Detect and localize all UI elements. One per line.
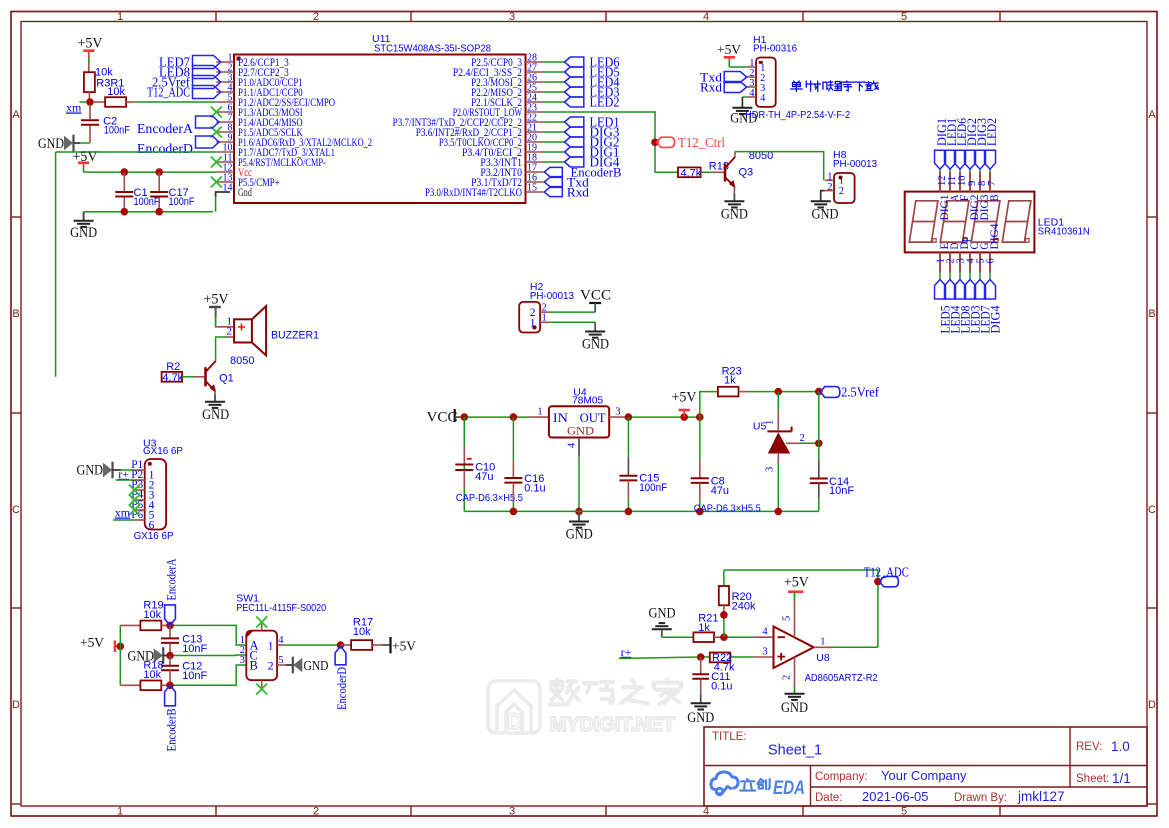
wire ground rail under C1 C17 bbox=[84, 211, 213, 213]
svg-text:R2: R2 bbox=[166, 361, 180, 373]
IC U11 body bbox=[234, 55, 526, 204]
IC U11 right pin 19 bbox=[526, 151, 544, 153]
svg-text:GND: GND bbox=[38, 136, 64, 152]
svg-text:100nF: 100nF bbox=[104, 125, 130, 137]
svg-text:4.7k: 4.7k bbox=[681, 168, 702, 180]
IC U11 no-connect X pins 6 8 11 13 bbox=[211, 107, 222, 118]
resistor R2 bbox=[162, 372, 183, 382]
svg-text:100nF: 100nF bbox=[134, 196, 160, 208]
wire +5V to IC pin12 Vcc bbox=[84, 171, 217, 173]
svg-text:GND: GND bbox=[304, 659, 329, 674]
display top flag DIG2 bbox=[965, 150, 976, 169]
IC U11 left pin 12 bbox=[216, 171, 234, 173]
svg-text:10k: 10k bbox=[107, 86, 125, 98]
junction 2.5Vref bbox=[815, 388, 823, 396]
svg-text:+5V: +5V bbox=[672, 390, 697, 406]
junction U4 gnd bottom bbox=[575, 508, 583, 516]
svg-text:EDA: EDA bbox=[773, 778, 805, 799]
svg-text:47u: 47u bbox=[711, 485, 729, 497]
wire pin to flag LED5 bbox=[544, 71, 565, 73]
op-amp pin2 to ground bbox=[794, 657, 796, 686]
connector U3 pin 6 bbox=[134, 519, 144, 521]
svg-text:6: 6 bbox=[986, 258, 997, 263]
display top pin 8 bbox=[979, 172, 981, 192]
ground arrow top left bbox=[65, 137, 73, 149]
connector H8 pin 2 bbox=[825, 190, 834, 192]
resistor R21 bbox=[693, 632, 714, 642]
svg-text:PH-00013: PH-00013 bbox=[833, 158, 877, 170]
IC U11 right pin 27 bbox=[526, 71, 544, 73]
wire GND to U3 P1 bbox=[112, 469, 121, 471]
junction C15 bottom bbox=[625, 508, 633, 516]
svg-text:U8: U8 bbox=[816, 652, 830, 664]
capacitor C2 bbox=[89, 105, 91, 120]
svg-text:3: 3 bbox=[765, 467, 776, 472]
svg-text:2: 2 bbox=[313, 806, 319, 818]
svg-text:GND: GND bbox=[721, 207, 748, 223]
svg-text:Rxd: Rxd bbox=[567, 184, 590, 199]
svg-text:EncoderD: EncoderD bbox=[137, 141, 193, 156]
svg-text:+5V: +5V bbox=[80, 636, 104, 651]
frame row ticks bbox=[11, 216, 21, 218]
IC U11 right pin 23 bbox=[526, 111, 544, 113]
connector H2 pin 2 bbox=[540, 311, 550, 313]
display digit 2 bbox=[940, 201, 969, 242]
switch SW1 top no-connect bbox=[261, 624, 263, 631]
ground arrow at U3 P1 bbox=[104, 464, 112, 476]
svg-text:Gnd: Gnd bbox=[238, 187, 252, 199]
wire gnd to SW1 pin C bbox=[163, 655, 170, 657]
op-amp U8 triangle bbox=[774, 627, 814, 669]
net flag T12_ADC bbox=[193, 86, 221, 99]
svg-text:C: C bbox=[12, 504, 20, 516]
wire Q3 collector to H8 pin1 bbox=[734, 152, 736, 157]
wire xm stub bbox=[79, 101, 86, 103]
wire gnd to R21 bbox=[662, 636, 694, 638]
svg-text:PEC11L-4115F-S0020: PEC11L-4115F-S0020 bbox=[236, 602, 326, 614]
wire H1 pin4 to ground bbox=[742, 96, 746, 98]
svg-text:C: C bbox=[1148, 504, 1156, 516]
resistor R22 bbox=[710, 653, 731, 663]
svg-text:2: 2 bbox=[227, 326, 233, 338]
junction C16 top bbox=[510, 413, 518, 421]
IC U11 right pin 18 bbox=[526, 161, 544, 163]
svg-text:GND: GND bbox=[70, 225, 97, 241]
display top pin 10 bbox=[959, 172, 961, 192]
svg-text:2021-06-05: 2021-06-05 bbox=[862, 789, 929, 804]
net port T12_Ctrl bbox=[657, 137, 675, 147]
svg-text:GX16 6P: GX16 6P bbox=[143, 445, 183, 457]
display top flag LED6 bbox=[955, 150, 966, 169]
ground at H1 bbox=[732, 107, 752, 109]
svg-text:HDR-TH_4P-P2.54-V-F-2: HDR-TH_4P-P2.54-V-F-2 bbox=[745, 110, 850, 121]
svg-text:3: 3 bbox=[615, 407, 620, 418]
junction EncoderD at R17 bbox=[337, 641, 345, 649]
svg-text:GND: GND bbox=[202, 407, 229, 423]
connector H1 pin 2 bbox=[747, 76, 756, 78]
shunt reference U5 bbox=[777, 392, 779, 412]
junction EncoderB bbox=[166, 682, 174, 690]
svg-text:D: D bbox=[12, 699, 20, 711]
wire pin to flag LED1 bbox=[544, 121, 565, 123]
wire pin to flag DIG2 bbox=[544, 141, 565, 143]
display bottom flag LED7 bbox=[975, 280, 986, 300]
svg-text:1k: 1k bbox=[698, 622, 710, 634]
net flag Rxd at H1 bbox=[724, 82, 747, 93]
svg-text:B: B bbox=[1148, 308, 1155, 320]
connector H1 body bbox=[756, 58, 776, 107]
svg-text:1: 1 bbox=[268, 639, 274, 653]
IC U11 left pin 4 bbox=[216, 91, 234, 93]
svg-text:4: 4 bbox=[762, 627, 768, 638]
net port 2.5Vref bbox=[820, 387, 840, 398]
svg-text:MYDIGIT.NET: MYDIGIT.NET bbox=[550, 714, 675, 736]
wire xm to U3 P6 bbox=[113, 519, 134, 521]
svg-text:3: 3 bbox=[509, 806, 515, 818]
svg-text:A: A bbox=[12, 109, 20, 121]
wire R19 to SW1 pin A bbox=[170, 625, 246, 645]
wire pin to flag LED3 bbox=[544, 91, 565, 93]
wire SW1 pin4 to R17 bbox=[285, 644, 340, 646]
op-amp output wire bbox=[814, 646, 833, 648]
svg-text:+5V: +5V bbox=[204, 292, 229, 308]
wire IC pin23 to T12_Ctrl and R13 bbox=[544, 112, 679, 172]
svg-text:10nF: 10nF bbox=[182, 643, 207, 655]
IC U11 left pin 3 bbox=[216, 81, 234, 83]
capacitor C15 bbox=[627, 417, 629, 458]
wire feedback top bbox=[724, 570, 878, 647]
svg-text:VCC: VCC bbox=[580, 288, 611, 304]
IC U11 left pin 13 bbox=[216, 181, 234, 183]
svg-text:10nF: 10nF bbox=[829, 485, 854, 497]
svg-text:10k: 10k bbox=[143, 609, 161, 621]
svg-text:xm: xm bbox=[115, 506, 131, 520]
display top pin 9 bbox=[969, 172, 971, 192]
connector U3 pin 2 bbox=[134, 479, 144, 481]
net flag LED2 bbox=[565, 97, 584, 107]
net flag DIG2 bbox=[565, 137, 584, 147]
ground at C11 bbox=[691, 702, 711, 704]
wire H2 pin1 to GND bbox=[550, 321, 596, 323]
svg-text:3: 3 bbox=[240, 655, 245, 666]
capacitor C14 bbox=[818, 461, 820, 479]
connector H8 body bbox=[834, 173, 855, 203]
ground arrow mid SW1 bbox=[154, 649, 162, 661]
regulator U4 78M05 bbox=[549, 406, 609, 437]
connector H1 pin 4 bbox=[747, 96, 756, 98]
wire C2 to GND bbox=[80, 142, 90, 144]
wire R2 to Q1 base bbox=[182, 376, 193, 378]
svg-text:78M05: 78M05 bbox=[572, 395, 603, 407]
resistor R1 bbox=[94, 101, 105, 103]
wire H2 pin2 to VCC bbox=[550, 311, 596, 313]
net port EncoderA bbox=[165, 605, 176, 626]
net flag LED6 bbox=[565, 57, 584, 67]
svg-text:BUZZER1: BUZZER1 bbox=[271, 330, 319, 342]
display bottom flag LED4 bbox=[945, 280, 956, 300]
junction C1 bottom bbox=[121, 208, 129, 216]
display digit 4 bbox=[1002, 201, 1031, 242]
net flag Txd at IC bbox=[544, 177, 562, 186]
connector U3 pin 3 bbox=[134, 489, 144, 491]
svg-text:2: 2 bbox=[800, 433, 805, 444]
net flag Txd at H1 bbox=[724, 72, 747, 83]
capacitor C8 bbox=[699, 417, 701, 460]
svg-text:1: 1 bbox=[117, 11, 123, 23]
wire pin to flag DIG3 bbox=[544, 131, 565, 133]
svg-text:1: 1 bbox=[537, 407, 542, 418]
transistor Q1 8050 bbox=[204, 367, 207, 386]
svg-text:GND: GND bbox=[812, 207, 839, 223]
net flag LED8 bbox=[193, 66, 221, 79]
IC U11 right pin 24 bbox=[526, 101, 544, 103]
connector H1 pin 1 bbox=[747, 66, 756, 68]
svg-text:T12_ADC: T12_ADC bbox=[147, 84, 190, 99]
svg-text:Date:: Date: bbox=[815, 792, 843, 804]
wire IC Gnd pin elbow bbox=[216, 192, 230, 197]
U5 pin2 wire bbox=[786, 442, 800, 444]
svg-text:Your Company: Your Company bbox=[881, 768, 967, 783]
svg-text:Q1: Q1 bbox=[219, 373, 234, 385]
svg-text:2: 2 bbox=[782, 675, 793, 680]
svg-text:PH-00013: PH-00013 bbox=[530, 290, 574, 302]
capacitor C17 bbox=[158, 172, 160, 191]
ground below U4 bbox=[578, 511, 580, 521]
svg-text:T12_Ctrl: T12_Ctrl bbox=[678, 135, 725, 150]
switch SW1 pin 4 bbox=[277, 644, 285, 646]
connector U3 pin 5 bbox=[134, 509, 144, 511]
svg-text:4: 4 bbox=[278, 635, 284, 646]
resistor R20 feedback bbox=[723, 570, 725, 586]
wire H8 pin2 to ground bbox=[821, 191, 825, 201]
capacitor C16 bbox=[512, 417, 514, 460]
svg-text:0.1u: 0.1u bbox=[711, 680, 732, 692]
svg-text:PH-00316: PH-00316 bbox=[753, 43, 797, 55]
svg-text:10k: 10k bbox=[143, 669, 161, 681]
wire +5V rail up to R23 bbox=[700, 392, 718, 418]
display top pin 12 bbox=[939, 172, 941, 192]
wire R21 to op-amp pin4 bbox=[714, 636, 724, 638]
wire +5V to H1 pin1 bbox=[729, 66, 746, 68]
wire r+ to op-amp pin3 bbox=[619, 657, 701, 658]
svg-text:Q3: Q3 bbox=[739, 167, 754, 179]
svg-text:240k: 240k bbox=[732, 601, 756, 613]
svg-text:5: 5 bbox=[278, 655, 283, 666]
svg-text:r+: r+ bbox=[118, 467, 129, 481]
svg-text:VCC: VCC bbox=[427, 410, 458, 426]
svg-text:IN: IN bbox=[553, 411, 568, 425]
svg-text:LED2: LED2 bbox=[590, 94, 620, 109]
watermark text shuma zhijia bbox=[550, 680, 681, 704]
svg-text:8050: 8050 bbox=[230, 355, 254, 367]
watermark mydigit logo bbox=[488, 681, 540, 733]
svg-text:GND: GND bbox=[567, 424, 594, 438]
power +5V right of R17 bbox=[389, 637, 391, 653]
display bottom pin 1 bbox=[939, 252, 941, 272]
wire R13 to Q3 base bbox=[701, 171, 713, 173]
IC U11 right pin 26 bbox=[526, 81, 544, 83]
svg-text:1: 1 bbox=[542, 313, 547, 324]
net flag EncoderA bbox=[196, 116, 220, 128]
display top pin 11 bbox=[949, 172, 951, 192]
svg-text:7: 7 bbox=[987, 181, 998, 186]
resistor R18 bbox=[120, 684, 140, 686]
IC U11 right pin 25 bbox=[526, 91, 544, 93]
junction C17 bottom bbox=[155, 208, 163, 216]
net flag DIG4 bbox=[565, 157, 584, 167]
switch SW1 bottom no-connect bbox=[261, 680, 263, 687]
wire R18 to SW1 pin B bbox=[170, 665, 246, 685]
display top flag LED2 bbox=[985, 150, 996, 169]
svg-text:LED2: LED2 bbox=[985, 118, 999, 146]
display bottom pin 5 bbox=[979, 252, 981, 272]
svg-text:r+: r+ bbox=[621, 645, 632, 659]
wire pin to flag LED6 bbox=[544, 61, 565, 63]
junction C1 top bbox=[121, 168, 129, 176]
net flag LED7 bbox=[193, 56, 221, 69]
wire VCC rail to U4 IN bbox=[464, 416, 529, 418]
display digit 1 bbox=[909, 201, 938, 242]
svg-text:4: 4 bbox=[703, 806, 709, 818]
net flag DIG1 bbox=[565, 147, 584, 157]
junction C8 bottom bbox=[696, 508, 704, 516]
wire 2.5Vref column down to C14 bbox=[818, 392, 820, 461]
net flag Rxd at IC bbox=[544, 187, 562, 196]
wire R23 to 2.5Vref bbox=[739, 391, 748, 393]
svg-text:Rxd: Rxd bbox=[700, 79, 723, 94]
svg-text:A: A bbox=[1148, 109, 1156, 121]
wire pin to flag LED2 bbox=[544, 101, 565, 103]
connector H8 pin 1 bbox=[825, 179, 834, 181]
display bottom pin 4 bbox=[969, 252, 971, 272]
svg-text:2: 2 bbox=[313, 11, 319, 23]
net flag 2.5Vref bbox=[193, 76, 221, 89]
svg-text:B: B bbox=[12, 308, 19, 320]
junction U5 pin2 bbox=[815, 440, 823, 448]
svg-text:EncoderD: EncoderD bbox=[334, 667, 349, 710]
svg-text:2: 2 bbox=[268, 659, 274, 673]
svg-text:1/1: 1/1 bbox=[1112, 771, 1131, 786]
IC U11 left pin 2 bbox=[216, 71, 234, 73]
display bottom flag LED8 bbox=[955, 280, 966, 300]
junction C8 top bbox=[696, 413, 704, 421]
svg-text:100nF: 100nF bbox=[169, 196, 195, 208]
svg-text:1: 1 bbox=[117, 806, 123, 818]
resistor R3 bbox=[84, 72, 95, 92]
svg-text:DIG4: DIG4 bbox=[989, 223, 1001, 249]
U5 pin3 wire to ground rail bbox=[777, 453, 779, 463]
junction U5 pin3 bottom bbox=[775, 508, 783, 516]
display top flag LED1 bbox=[945, 150, 956, 169]
connector H1 pin 3 bbox=[747, 86, 756, 88]
capacitor C13 bbox=[169, 625, 171, 637]
ground arrow at SW1 pin5 bbox=[285, 664, 293, 666]
junction EncoderA bbox=[166, 622, 174, 630]
ground at Q3 bbox=[724, 200, 744, 202]
svg-text:STC15W408AS-35I-SOP28: STC15W408AS-35I-SOP28 bbox=[374, 43, 491, 55]
display bottom flag DIG4 bbox=[985, 280, 996, 300]
net flag EncoderB bbox=[544, 167, 562, 176]
svg-text:D: D bbox=[507, 709, 523, 734]
wire r+ to U3 P2 bbox=[116, 479, 135, 481]
svg-text:SR410361N: SR410361N bbox=[1038, 226, 1090, 238]
svg-text:2: 2 bbox=[839, 186, 844, 197]
wire pin to flag DIG4 bbox=[544, 161, 565, 163]
svg-text:EncoderA: EncoderA bbox=[163, 558, 178, 600]
svg-text:EncoderB: EncoderB bbox=[163, 708, 178, 751]
ground at Q1 bbox=[205, 401, 225, 403]
wire +5V to buzzer pin1 bbox=[215, 326, 234, 328]
IC U11 right pin 16 bbox=[526, 181, 544, 183]
capacitor C10 polarized bbox=[463, 417, 465, 446]
switch SW1 pin 5 bbox=[277, 664, 285, 666]
svg-text:GND: GND bbox=[687, 710, 714, 726]
IC U11 right pin 20 bbox=[526, 141, 544, 143]
transistor Q3 8050 bbox=[724, 164, 727, 182]
lceda logo text bbox=[747, 779, 749, 780]
svg-text:T12_ADC: T12_ADC bbox=[864, 565, 909, 580]
wire buzzer pin2 to Q1 collector bbox=[226, 336, 234, 338]
svg-text:3: 3 bbox=[762, 647, 767, 658]
connector H2 pin 1 bbox=[540, 321, 550, 323]
IC U11 left pin 10 bbox=[216, 151, 234, 153]
wire left rail SW1 bbox=[119, 625, 121, 685]
IC U11 left pin 8 bbox=[216, 131, 234, 133]
svg-text:10k: 10k bbox=[353, 626, 371, 638]
junction +5V rail SW1 bbox=[117, 643, 125, 651]
junction C15 top bbox=[625, 413, 633, 421]
ground at H8 bbox=[811, 200, 831, 202]
IC U11 right pin 22 bbox=[526, 121, 544, 123]
svg-text:4: 4 bbox=[567, 442, 578, 448]
svg-text:U5: U5 bbox=[753, 421, 767, 433]
svg-text:GND: GND bbox=[582, 337, 609, 353]
svg-text:GND: GND bbox=[649, 606, 676, 622]
IC U11 left pin 11 bbox=[216, 161, 234, 163]
display bottom flag LED3 bbox=[965, 280, 976, 300]
display bottom pin 2 bbox=[949, 252, 951, 272]
display bottom pin 6 bbox=[989, 252, 991, 272]
svg-text:2: 2 bbox=[827, 182, 832, 193]
svg-text:47u: 47u bbox=[475, 471, 493, 483]
svg-text:REV:: REV: bbox=[1076, 741, 1102, 753]
frame column ticks bbox=[215, 12, 217, 22]
svg-text:B: B bbox=[250, 659, 258, 673]
connector U3 pin 1 bbox=[134, 469, 144, 471]
svg-text:TITLE:: TITLE: bbox=[712, 731, 747, 743]
junction C13 bottom bbox=[166, 652, 174, 660]
resistor R19 bbox=[120, 624, 140, 626]
connector H2 body bbox=[519, 302, 540, 333]
svg-text:GX16 6P: GX16 6P bbox=[134, 530, 174, 542]
net flag LED3 bbox=[565, 87, 584, 97]
junction T12_ADC bbox=[874, 578, 882, 586]
ground at H2 bbox=[594, 322, 596, 331]
net flag LED5 bbox=[565, 67, 584, 77]
wire pin to flag DIG1 bbox=[544, 151, 565, 153]
IC U11 right pin 15 bbox=[526, 191, 544, 193]
junction C17 top bbox=[155, 168, 163, 176]
svg-text:4: 4 bbox=[749, 88, 755, 99]
svg-text:GND: GND bbox=[566, 527, 593, 543]
wire +5V rail to IC pin10 bbox=[56, 151, 217, 153]
ground rail bottom bbox=[464, 510, 819, 512]
display LED1 body bbox=[905, 192, 1035, 253]
junction r+ C11 R22 bbox=[697, 653, 705, 661]
svg-text:D: D bbox=[1148, 699, 1156, 711]
svg-text:EncoderA: EncoderA bbox=[137, 121, 193, 136]
IC U11 left pin 6 bbox=[216, 111, 234, 113]
